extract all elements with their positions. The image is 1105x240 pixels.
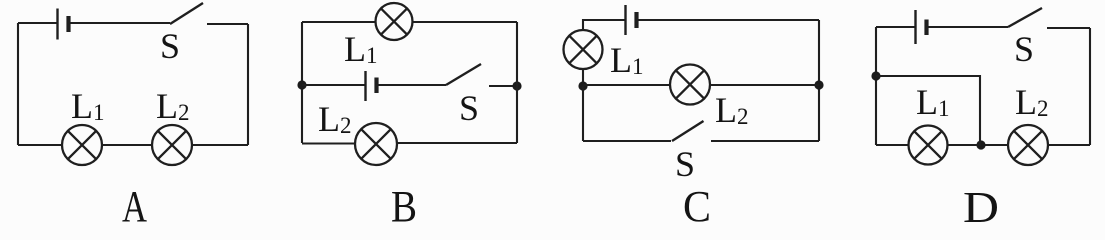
switch S (circuit A) blade — [170, 3, 203, 24]
wire C middle-right — [710, 84, 819, 86]
svg-text:L1: L1 — [344, 29, 378, 69]
lamp L1 (circuit D) — [909, 126, 948, 165]
svg-text:L2: L2 — [1015, 82, 1049, 122]
svg-text:L2: L2 — [715, 90, 749, 130]
wire C lamp to node — [582, 69, 584, 86]
wire D left rail — [875, 27, 877, 145]
wire D node to lamp L1 — [948, 144, 982, 146]
wire C middle-left — [583, 84, 670, 86]
wire D top-left — [876, 26, 916, 28]
node C right junction — [814, 80, 823, 89]
battery BT4 short plate — [924, 20, 928, 36]
wire B switch right contact — [489, 85, 517, 87]
lamp L2 (circuit D) — [1008, 125, 1048, 165]
svg-text:L1: L1 — [610, 40, 644, 80]
wire B right rail — [516, 22, 518, 143]
wire C left rail lower — [582, 86, 584, 141]
wire D switch right contact — [1047, 27, 1090, 29]
wire A left rail — [17, 23, 19, 145]
switch S (circuit B) blade — [446, 64, 481, 85]
wire A right rail — [247, 24, 249, 145]
node B right junction — [512, 81, 521, 90]
wire B left rail — [301, 22, 303, 143]
lamp L1 (circuit C) — [564, 30, 603, 69]
lamp L2 (circuit B) — [355, 123, 397, 165]
wire C top-right — [637, 19, 820, 21]
wire A bottom-left — [18, 144, 62, 146]
battery BT2 short plate — [374, 78, 378, 94]
lamp top (circuit B) — [376, 3, 413, 40]
wire B top-left — [302, 21, 376, 23]
wire C top-left corner — [583, 20, 626, 30]
switch S (circuit D) blade — [1008, 8, 1042, 27]
wire A battery to switch — [69, 22, 171, 24]
lamp L2 (circuit A) — [152, 125, 192, 165]
wire C right rail — [818, 20, 820, 141]
wire D bottom-right — [1048, 144, 1090, 146]
svg-text:S: S — [459, 88, 479, 128]
wire D battery to switch — [927, 26, 1009, 28]
svg-text:S: S — [1014, 29, 1034, 69]
svg-text:C: C — [683, 182, 711, 225]
wire C bottom-left — [583, 140, 671, 142]
wire D bottom-left — [876, 144, 909, 146]
lamp L2 (circuit C) — [670, 65, 710, 105]
wire B battery to switch — [377, 84, 447, 86]
battery BT3 short plate — [634, 12, 638, 28]
node D left junction — [871, 71, 880, 80]
battery BT3 long plate — [624, 5, 626, 35]
node B left junction — [297, 80, 306, 89]
wire B bottom-right — [397, 142, 517, 144]
wire D right rail — [1089, 28, 1091, 145]
svg-text:L1: L1 — [71, 86, 105, 126]
wire A between lamps — [102, 144, 152, 146]
wire D shorting branch — [876, 76, 980, 145]
svg-text:A: A — [122, 182, 147, 225]
wire D lamp L2 to node — [981, 144, 1008, 146]
svg-text:B: B — [391, 182, 417, 225]
svg-text:S: S — [675, 144, 695, 184]
node C left junction — [578, 81, 587, 90]
wire B top-right — [413, 21, 518, 23]
wire B node to battery — [302, 84, 365, 86]
battery BT4 long plate — [914, 10, 916, 44]
wire B bottom-left — [302, 142, 355, 144]
wire A top-left — [18, 22, 58, 24]
battery BT1 short plate — [66, 16, 70, 32]
battery BT1 long plate — [56, 9, 58, 40]
lamp L1 (circuit A) — [62, 125, 102, 165]
svg-text:L1: L1 — [916, 82, 950, 122]
wire C switch right contact — [711, 140, 819, 142]
wire A switch right contact — [207, 23, 248, 25]
battery BT2 long plate — [364, 71, 366, 101]
switch S (circuit C) blade — [672, 121, 704, 141]
svg-text:S: S — [160, 26, 180, 66]
svg-text:L2: L2 — [156, 86, 190, 126]
node D bottom junction — [976, 140, 985, 149]
svg-text:D: D — [963, 183, 999, 225]
wire A bottom-right — [192, 144, 248, 146]
svg-text:L2: L2 — [318, 99, 352, 139]
